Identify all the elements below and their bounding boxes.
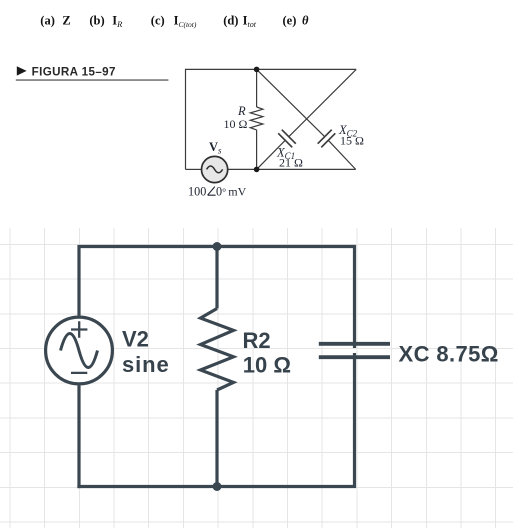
svg-text:(c): (c) bbox=[151, 13, 165, 27]
junction dot bottom bbox=[213, 482, 222, 491]
wire bottom right bbox=[228, 168, 356, 170]
bottom labels bbox=[122, 327, 499, 378]
resistor R zigzag bbox=[250, 107, 263, 130]
source VS sine bbox=[207, 166, 223, 173]
problem list text bbox=[40, 13, 309, 29]
source V2 sine bbox=[61, 334, 98, 368]
angle symbol bbox=[208, 187, 216, 196]
svg-text:θ: θ bbox=[302, 13, 309, 27]
node bottom bbox=[254, 167, 260, 173]
top figure labels bbox=[188, 104, 364, 198]
figure heading underline bbox=[16, 79, 169, 81]
capacitor XC2 wires on diagonal bbox=[257, 69, 356, 169]
svg-text:Itot: Itot bbox=[243, 13, 257, 29]
svg-text:10 Ω: 10 Ω bbox=[224, 117, 248, 131]
svg-text:15 Ω: 15 Ω bbox=[340, 133, 364, 147]
junction dot top bbox=[213, 242, 222, 251]
capacitor XC1 plates bbox=[278, 130, 296, 148]
svg-text:(d): (d) bbox=[223, 13, 238, 27]
wire middle bottom bbox=[256, 130, 258, 170]
svg-text:IR: IR bbox=[112, 13, 123, 29]
source V2 minus bbox=[71, 372, 87, 374]
svg-text:sine: sine bbox=[122, 352, 170, 377]
source V2 plus bbox=[71, 321, 87, 337]
svg-text:V2: V2 bbox=[122, 327, 149, 352]
wire top bbox=[186, 68, 357, 70]
node top bbox=[254, 67, 260, 73]
capacitor XC plates bbox=[319, 344, 390, 357]
svg-text:(a): (a) bbox=[40, 13, 55, 27]
svg-text:10 Ω: 10 Ω bbox=[243, 353, 291, 378]
wire left bottom bbox=[77, 386, 80, 489]
wire bottom left bbox=[186, 168, 202, 170]
svg-text:0°: 0° bbox=[216, 185, 226, 199]
svg-text:IC(tot): IC(tot) bbox=[174, 13, 197, 29]
capacitor XC2 plates bbox=[318, 130, 336, 148]
svg-text:FIGURA 15–97: FIGURA 15–97 bbox=[32, 65, 116, 78]
source V2 circle bbox=[46, 317, 113, 384]
figure heading arrow bbox=[17, 66, 27, 75]
svg-text:mV: mV bbox=[228, 185, 246, 199]
resistor R2 zigzag bbox=[201, 309, 234, 391]
wire middle top bbox=[215, 247, 218, 309]
svg-text:XC 8.75Ω: XC 8.75Ω bbox=[399, 341, 499, 366]
svg-text:(e): (e) bbox=[283, 13, 297, 27]
svg-text:(b): (b) bbox=[89, 13, 104, 27]
source VS circle bbox=[202, 156, 228, 182]
svg-text:100: 100 bbox=[188, 185, 206, 199]
wire top bbox=[79, 247, 355, 349]
wire left bbox=[185, 69, 187, 170]
svg-text:R2: R2 bbox=[243, 328, 271, 353]
wire middle bottom bbox=[215, 390, 218, 487]
svg-text:Vs: Vs bbox=[209, 140, 222, 156]
wire bottom bbox=[77, 353, 354, 487]
wire middle top bbox=[256, 69, 258, 107]
svg-text:Z: Z bbox=[62, 13, 70, 27]
svg-text:21 Ω: 21 Ω bbox=[279, 155, 303, 169]
capacitor XC1 wires on diagonal bbox=[257, 69, 357, 169]
